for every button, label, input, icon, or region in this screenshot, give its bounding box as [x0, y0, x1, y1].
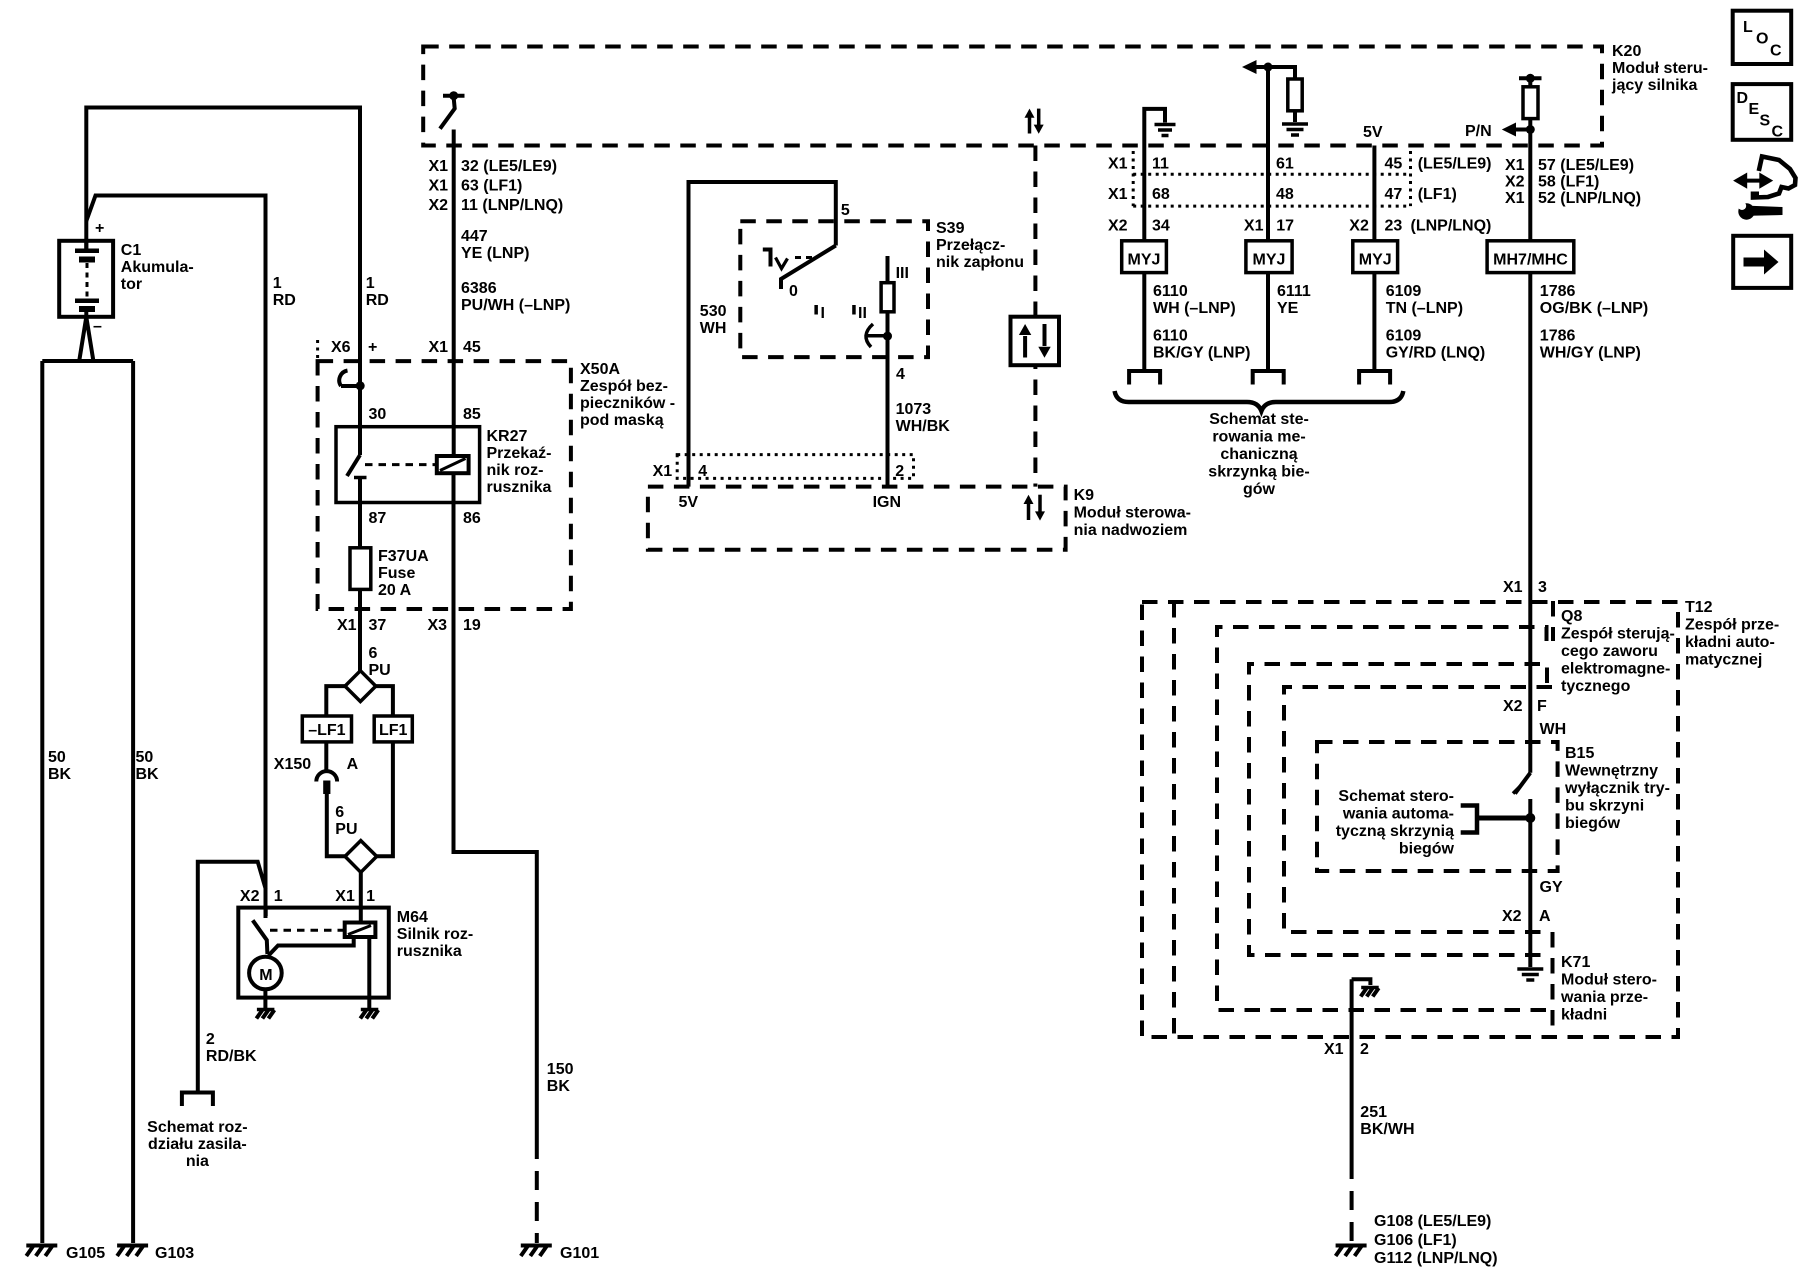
svg-text:+: + [95, 220, 104, 237]
label 6386 PU/WH (-LNP) [461, 280, 570, 314]
starter solenoid contact blade [253, 908, 268, 954]
svg-text:PU/WH (–LNP): PU/WH (–LNP) [461, 297, 570, 314]
svg-text:X1: X1 [1505, 190, 1525, 207]
label 1 RD (left) [273, 275, 296, 309]
label 6109 GY/RD (LNQ) [1386, 328, 1486, 362]
transmission assembly T12 outer dashed box [1142, 602, 1678, 1037]
S39 wiper hook and junction [866, 324, 892, 347]
pin label X2 11 (LNP/LNQ) [429, 197, 564, 214]
svg-text:KR27: KR27 [487, 428, 528, 445]
svg-text:+: + [368, 339, 377, 356]
svg-text:tor: tor [121, 276, 142, 293]
svg-text:50: 50 [48, 749, 66, 766]
inner dashed box level 5 [1284, 687, 1552, 932]
svg-text:6110: 6110 [1153, 283, 1188, 300]
svg-text:5V: 5V [1363, 124, 1383, 141]
svg-text:biegów: biegów [1399, 841, 1455, 858]
contact label I [814, 305, 825, 322]
svg-text:Schemat stero-: Schemat stero- [1338, 788, 1454, 805]
label M64 Silnik rozrusznika [397, 909, 473, 960]
svg-text:tyczną skrzynią: tyczną skrzynią [1336, 823, 1454, 840]
svg-text:Moduł sterowa-: Moduł sterowa- [1074, 505, 1191, 522]
ground starter solenoid [360, 1010, 378, 1019]
svg-text:X1: X1 [337, 617, 357, 634]
svg-text:LF1: LF1 [379, 722, 408, 739]
pin row X1 68 48 47 (LF1) [1108, 186, 1457, 203]
svg-text:P/N: P/N [1465, 123, 1492, 140]
svg-text:M: M [259, 967, 272, 984]
B15 junction and reference link [1461, 806, 1536, 833]
svg-text:K9: K9 [1074, 487, 1095, 504]
label 6 PU (upper) [369, 645, 391, 679]
svg-text:4: 4 [698, 463, 707, 480]
svg-text:6109: 6109 [1386, 283, 1422, 300]
starter solenoid coil [345, 908, 376, 937]
svg-text:X2: X2 [1502, 908, 1522, 925]
label WH [1540, 721, 1567, 738]
icon DESC [1733, 84, 1792, 140]
svg-text:II: II [858, 305, 867, 322]
svg-text:wania prze-: wania prze- [1560, 989, 1648, 1006]
connector MYJ (column 1) [1122, 241, 1167, 273]
svg-text:X1: X1 [1244, 218, 1264, 235]
svg-text:1: 1 [366, 888, 375, 905]
svg-text:–: – [93, 318, 102, 335]
label C1 Akumulator [121, 242, 194, 293]
svg-text:elektromagne-: elektromagne- [1561, 661, 1670, 678]
svg-text:11: 11 [1152, 156, 1169, 173]
svg-text:X50A: X50A [580, 361, 620, 378]
svg-text:G106 (LF1): G106 (LF1) [1374, 1232, 1457, 1249]
pin label X2 1 (starter) [240, 888, 283, 905]
svg-text:WH (–LNP): WH (–LNP) [1153, 300, 1236, 317]
svg-text:OG/BK (–LNP): OG/BK (–LNP) [1540, 300, 1648, 317]
wire splice left branch [326, 686, 345, 716]
svg-text:Akumula-: Akumula- [121, 259, 194, 276]
svg-text:X1: X1 [1108, 186, 1128, 203]
svg-text:MYJ: MYJ [1359, 252, 1392, 269]
svg-text:20 A: 20 A [378, 582, 412, 599]
svg-text:23: 23 [1385, 218, 1403, 235]
svg-text:O: O [1756, 31, 1768, 48]
wire 50 BK (left) [40, 361, 44, 1243]
svg-text:GY: GY [1540, 879, 1563, 896]
svg-text:wyłącznik try-: wyłącznik try- [1564, 780, 1670, 797]
svg-text:X1: X1 [1108, 156, 1128, 173]
wire motor to ground [263, 989, 267, 1008]
label 1 RD (right) [366, 275, 389, 309]
svg-text:X6: X6 [331, 339, 351, 356]
svg-text:BK/WH: BK/WH [1360, 1121, 1414, 1138]
icon harness wrench [1733, 157, 1795, 220]
label K20 Modul sterujacy silnika [1611, 43, 1708, 94]
svg-text:32 (LE5/LE9): 32 (LE5/LE9) [461, 158, 557, 175]
wire 1786 column [1528, 130, 1532, 241]
pin label X1 3 [1503, 579, 1547, 596]
svg-text:Zespół prze-: Zespół prze- [1685, 617, 1779, 634]
svg-text:PU: PU [335, 821, 357, 838]
svg-text:58 (LF1): 58 (LF1) [1538, 174, 1599, 191]
updown arrows (K9) [1024, 495, 1046, 521]
svg-text:Q8: Q8 [1561, 608, 1582, 625]
svg-text:Silnik roz-: Silnik roz- [397, 926, 473, 943]
svg-text:19: 19 [463, 617, 481, 634]
relay KR27 coil [437, 456, 469, 473]
label Schemat sterowania mechaniczna skrzynka biegow [1208, 411, 1309, 498]
svg-text:WH: WH [700, 320, 727, 337]
pin label X1 45 [429, 339, 481, 356]
svg-text:150: 150 [547, 1061, 574, 1078]
label 1786 OG/BK (-LNP) [1540, 283, 1648, 317]
label KR27 Przekaznik rozrusznika [487, 428, 552, 496]
label 5V (column 3) [1363, 124, 1383, 141]
svg-text:F: F [1537, 698, 1547, 715]
inner dashed box level 4 [1249, 664, 1547, 955]
svg-text:IGN: IGN [873, 494, 901, 511]
svg-text:YE: YE [1277, 300, 1299, 317]
svg-text:–LF1: –LF1 [308, 722, 345, 739]
svg-text:E: E [1749, 101, 1760, 118]
svg-text:Zespół bez-: Zespół bez- [580, 378, 668, 395]
svg-text:B15: B15 [1565, 745, 1594, 762]
node fuse block bus hook [339, 371, 364, 391]
wire 6386 PU/WH (K20 to relay coil) [452, 130, 456, 457]
svg-text:1: 1 [274, 888, 283, 905]
label Schemat rozdzialu zasilania [147, 1119, 247, 1170]
svg-text:I: I [821, 305, 825, 322]
splice diamond S1 [345, 671, 376, 702]
wire -LF1 to X150 [324, 742, 328, 770]
svg-text:cego zaworu: cego zaworu [1561, 643, 1658, 660]
connector MYJ (column 2) [1246, 241, 1292, 273]
svg-text:BK: BK [136, 766, 160, 783]
svg-text:D: D [1737, 90, 1749, 107]
pin label X2 F [1503, 698, 1547, 715]
svg-text:1786: 1786 [1540, 328, 1576, 345]
svg-text:TN (–LNP): TN (–LNP) [1386, 300, 1463, 317]
label 1073 WH/BK [896, 401, 951, 435]
wire 50 BK (right) [131, 361, 135, 1243]
starter motor M [249, 957, 282, 990]
label K71 Modul sterowania przekladni [1555, 952, 1667, 1024]
pin label X1 1 (starter) [335, 888, 375, 905]
svg-text:RD: RD [273, 292, 296, 309]
svg-text:Fuse: Fuse [378, 565, 415, 582]
label 6109 TN (-LNP) [1386, 283, 1463, 317]
label 6111 YE [1277, 283, 1311, 317]
svg-text:WH: WH [1540, 721, 1567, 738]
svg-text:45: 45 [463, 339, 481, 356]
control solenoid valve assembly Q8 dashed outline [1174, 601, 1553, 1037]
body control module K9 dashed box [648, 487, 1066, 550]
svg-text:X1: X1 [429, 178, 449, 195]
connector rows dotted box (LF1 row) [1133, 151, 1410, 206]
wire 6110 below MYJ [1142, 273, 1146, 372]
svg-text:37: 37 [369, 617, 387, 634]
svg-text:tycznego: tycznego [1561, 678, 1631, 695]
svg-text:2: 2 [1360, 1041, 1369, 1058]
pin label X2 A [1502, 908, 1551, 925]
svg-text:X1: X1 [429, 158, 449, 175]
svg-text:0: 0 [789, 283, 798, 300]
brace manual transmission schematic [1115, 391, 1404, 411]
pin label X1 37 [337, 617, 386, 634]
wire 530 WH [689, 182, 836, 487]
wire 6109 column [1372, 146, 1376, 241]
wire solenoid to motor link [269, 937, 354, 956]
transmission case chassis ground [1352, 979, 1379, 996]
label 2 RD/BK [206, 1031, 257, 1065]
contact label 0 [789, 283, 798, 300]
connector cup column 3 [1359, 371, 1390, 385]
S39 detent symbol [763, 248, 812, 269]
svg-text:Moduł stero-: Moduł stero- [1561, 972, 1657, 989]
svg-text:63 (LF1): 63 (LF1) [461, 178, 522, 195]
svg-text:biegów: biegów [1565, 815, 1621, 832]
internal mode switch B15 dashed box [1317, 742, 1558, 871]
svg-text:6111: 6111 [1277, 283, 1311, 300]
svg-text:BK: BK [48, 766, 72, 783]
svg-text:rowania me-: rowania me- [1212, 429, 1305, 446]
engine control module K20 dashed box [423, 47, 1602, 146]
label 1786 WH/GY (LNP) [1540, 328, 1641, 362]
pin label 5 [841, 202, 850, 219]
svg-text:F37UA: F37UA [378, 548, 429, 565]
label 251 BK/WH [1360, 1104, 1414, 1138]
K20 internal pullup resistor (column 4) [1519, 74, 1542, 130]
svg-text:MYJ: MYJ [1253, 252, 1286, 269]
svg-text:6109: 6109 [1386, 328, 1422, 345]
svg-text:X1: X1 [1503, 579, 1523, 596]
svg-text:30: 30 [369, 406, 387, 423]
svg-text:chaniczną: chaniczną [1220, 446, 1297, 463]
svg-text:3: 3 [1538, 579, 1547, 596]
svg-text:pod maską: pod maską [580, 412, 664, 429]
label T12 Zespol przekladni automatycznej [1685, 599, 1779, 669]
svg-text:X1: X1 [429, 339, 449, 356]
label X50A Zespol bezpiecznikow pod maska [580, 361, 675, 429]
svg-text:M64: M64 [397, 909, 428, 926]
inner dashed box level 3 [1217, 627, 1551, 1010]
svg-text:S39: S39 [936, 220, 965, 237]
svg-text:S: S [1760, 113, 1771, 130]
svg-text:45: 45 [1385, 156, 1403, 173]
fuse F37UA [350, 548, 371, 671]
wire battery negative fork [42, 317, 133, 361]
label Q8 Zespol sterujacego zaworu elektromagnetycznego [1557, 606, 1675, 695]
pin row X1 11 61 45 (LE5/LE9) [1108, 156, 1491, 173]
pin label 4 (ignition) [896, 366, 905, 383]
svg-text:wania automa-: wania automa- [1342, 806, 1454, 823]
starter motor M64 box [238, 908, 388, 998]
K20 internal resistor (column 2) [1282, 79, 1308, 135]
svg-text:4: 4 [896, 366, 905, 383]
svg-text:2: 2 [206, 1031, 215, 1048]
svg-text:RD/BK: RD/BK [206, 1048, 257, 1065]
pin label X2 58 (LF1) [1505, 174, 1599, 191]
svg-text:(LE5/LE9): (LE5/LE9) [1418, 156, 1492, 173]
wire battery positive feed top (1 RD) [86, 108, 360, 456]
label 50 BK (right) [136, 749, 160, 783]
pin label X6 + [331, 339, 377, 356]
svg-text:X2: X2 [1108, 218, 1128, 235]
label Schemat sterowania automatyczna skrzynia biegow [1336, 788, 1455, 858]
svg-text:X2: X2 [1503, 698, 1523, 715]
label 6 PU (lower) [335, 804, 357, 838]
label F37UA Fuse 20 A [378, 548, 429, 599]
wire 2 RD/BK to power distribution [198, 862, 266, 1092]
svg-text:PU: PU [369, 662, 391, 679]
svg-text:Zespół sterują-: Zespół sterują- [1561, 626, 1675, 643]
pin label X1 4 2 [653, 463, 905, 480]
svg-text:5: 5 [841, 202, 850, 219]
contact label II [852, 305, 867, 322]
S39 internal resistor [881, 256, 894, 487]
splice diamond S2 [345, 841, 377, 908]
pin label X1 63 (LF1) [429, 178, 523, 195]
svg-text:61: 61 [1276, 156, 1294, 173]
pin label X1 52 (LNP/LNQ) [1505, 190, 1641, 207]
icon LOC [1733, 11, 1792, 64]
wire splice right branch [376, 686, 393, 716]
svg-text:G108 (LE5/LE9): G108 (LE5/LE9) [1374, 1213, 1491, 1230]
svg-text:47: 47 [1385, 186, 1403, 203]
svg-text:C1: C1 [121, 242, 142, 259]
svg-text:530: 530 [700, 303, 727, 320]
svg-text:1: 1 [366, 275, 375, 292]
label B15 Wewnetrzny wylacznik trybu skrzyni biegow [1564, 745, 1670, 832]
svg-text:Przełącz-: Przełącz- [936, 237, 1005, 254]
svg-text:86: 86 [463, 510, 481, 527]
K71 ground (earth) [1517, 932, 1543, 980]
wire LF1 to splice S2 [377, 742, 393, 856]
svg-text:C: C [1772, 124, 1784, 141]
label K9 Modul sterowania nadwoziem [1074, 487, 1191, 539]
svg-text:6386: 6386 [461, 280, 497, 297]
svg-text:17: 17 [1276, 218, 1294, 235]
pin label 87 [369, 510, 387, 527]
S39 switch blade [781, 246, 836, 290]
connector MH7/MHC [1487, 241, 1574, 273]
svg-text:BK/GY (LNP): BK/GY (LNP) [1153, 345, 1250, 362]
svg-text:251: 251 [1360, 1104, 1387, 1121]
svg-text:48: 48 [1276, 186, 1294, 203]
svg-text:6: 6 [369, 645, 378, 662]
pin label X1 32 (LE5/LE9) [429, 158, 558, 175]
svg-text:Przekaź-: Przekaź- [487, 445, 552, 462]
svg-text:G101: G101 [560, 1245, 599, 1262]
wire 251 BK/WH [1350, 979, 1354, 1243]
svg-text:5V: 5V [679, 494, 699, 511]
relay KR27 switch blade [347, 455, 367, 548]
K9 connector dotted row [677, 455, 913, 479]
ground starter motor [256, 1010, 274, 1019]
pin label IGN [873, 494, 901, 511]
svg-text:działu zasila-: działu zasila- [148, 1136, 247, 1153]
pin label 30 [369, 406, 387, 423]
svg-text:rusznika: rusznika [397, 943, 462, 960]
connector LF1 [374, 716, 412, 742]
label 6110 BK/GY (LNP) [1153, 328, 1250, 362]
wire 1786 below MH7/MHC [1528, 273, 1532, 773]
svg-text:X150: X150 [274, 756, 311, 773]
label X150 A [274, 756, 359, 773]
connector cup column 2 [1253, 371, 1284, 385]
relay KR27 box [336, 427, 480, 503]
svg-text:K20: K20 [1612, 43, 1641, 60]
svg-text:K71: K71 [1561, 954, 1590, 971]
starter solenoid dashed link [270, 929, 343, 932]
svg-text:A: A [1539, 908, 1551, 925]
svg-text:YE (LNP): YE (LNP) [461, 245, 529, 262]
svg-text:57 (LE5/LE9): 57 (LE5/LE9) [1538, 157, 1634, 174]
label 6110 WH (-LNP) [1153, 283, 1236, 317]
svg-text:68: 68 [1152, 186, 1170, 203]
svg-text:C: C [1770, 43, 1782, 60]
connector cup column 1 [1129, 371, 1160, 385]
svg-text:X2: X2 [429, 197, 449, 214]
svg-text:WH/GY (LNP): WH/GY (LNP) [1540, 345, 1641, 362]
svg-text:Moduł steru-: Moduł steru- [1612, 60, 1708, 77]
svg-text:Schemat roz-: Schemat roz- [147, 1119, 247, 1136]
svg-text:52 (LNP/LNQ): 52 (LNP/LNQ) [1538, 190, 1641, 207]
svg-text:gów: gów [1243, 481, 1276, 498]
svg-text:X1: X1 [335, 888, 355, 905]
svg-text:G112 (LNP/LNQ): G112 (LNP/LNQ) [1374, 1250, 1498, 1267]
svg-text:MH7/MHC: MH7/MHC [1493, 252, 1568, 269]
ignition switch S39 dashed box [740, 221, 928, 357]
svg-text:2: 2 [895, 463, 904, 480]
updown arrows box (link) [1011, 317, 1060, 366]
svg-text:G103: G103 [155, 1245, 194, 1262]
svg-text:X1: X1 [1505, 157, 1525, 174]
svg-text:1786: 1786 [1540, 283, 1576, 300]
ground G101 [521, 1245, 599, 1262]
svg-text:matycznej: matycznej [1685, 652, 1762, 669]
svg-text:rusznika: rusznika [487, 479, 552, 496]
svg-text:11 (LNP/LNQ): 11 (LNP/LNQ) [461, 197, 563, 214]
svg-text:1073: 1073 [896, 401, 932, 418]
svg-text:kładni: kładni [1561, 1007, 1607, 1024]
svg-text:87: 87 [369, 510, 387, 527]
svg-text:WH/BK: WH/BK [896, 418, 951, 435]
label GY [1540, 879, 1563, 896]
wire 6111 column [1266, 67, 1270, 241]
svg-text:1: 1 [273, 275, 282, 292]
K20 internal ground (column 1) [1144, 109, 1175, 146]
dashed link K20 to K9 [1033, 146, 1037, 487]
svg-text:X2: X2 [1505, 174, 1525, 191]
connector -LF1 [302, 716, 351, 742]
svg-text:447: 447 [461, 228, 488, 245]
K20 internal P/N input arrow [1465, 123, 1535, 141]
pin label 86 [463, 510, 481, 527]
svg-text:nia: nia [186, 1153, 209, 1170]
wire solenoid coil to ground [367, 937, 371, 1008]
svg-text:BK: BK [547, 1078, 571, 1095]
svg-text:A: A [347, 756, 359, 773]
svg-text:nia nadwoziem: nia nadwoziem [1074, 522, 1188, 539]
svg-text:kładni auto-: kładni auto- [1685, 634, 1775, 651]
contact label III [896, 265, 909, 282]
svg-text:nik zapłonu: nik zapłonu [936, 254, 1024, 271]
svg-text:GY/RD (LNQ): GY/RD (LNQ) [1386, 345, 1486, 362]
svg-text:L: L [1743, 19, 1753, 36]
label S39 Przelacznik zaplonu [936, 220, 1024, 271]
svg-text:skrzynką bie-: skrzynką bie- [1208, 464, 1309, 481]
svg-text:X1: X1 [653, 463, 673, 480]
icon next arrow [1733, 236, 1791, 288]
